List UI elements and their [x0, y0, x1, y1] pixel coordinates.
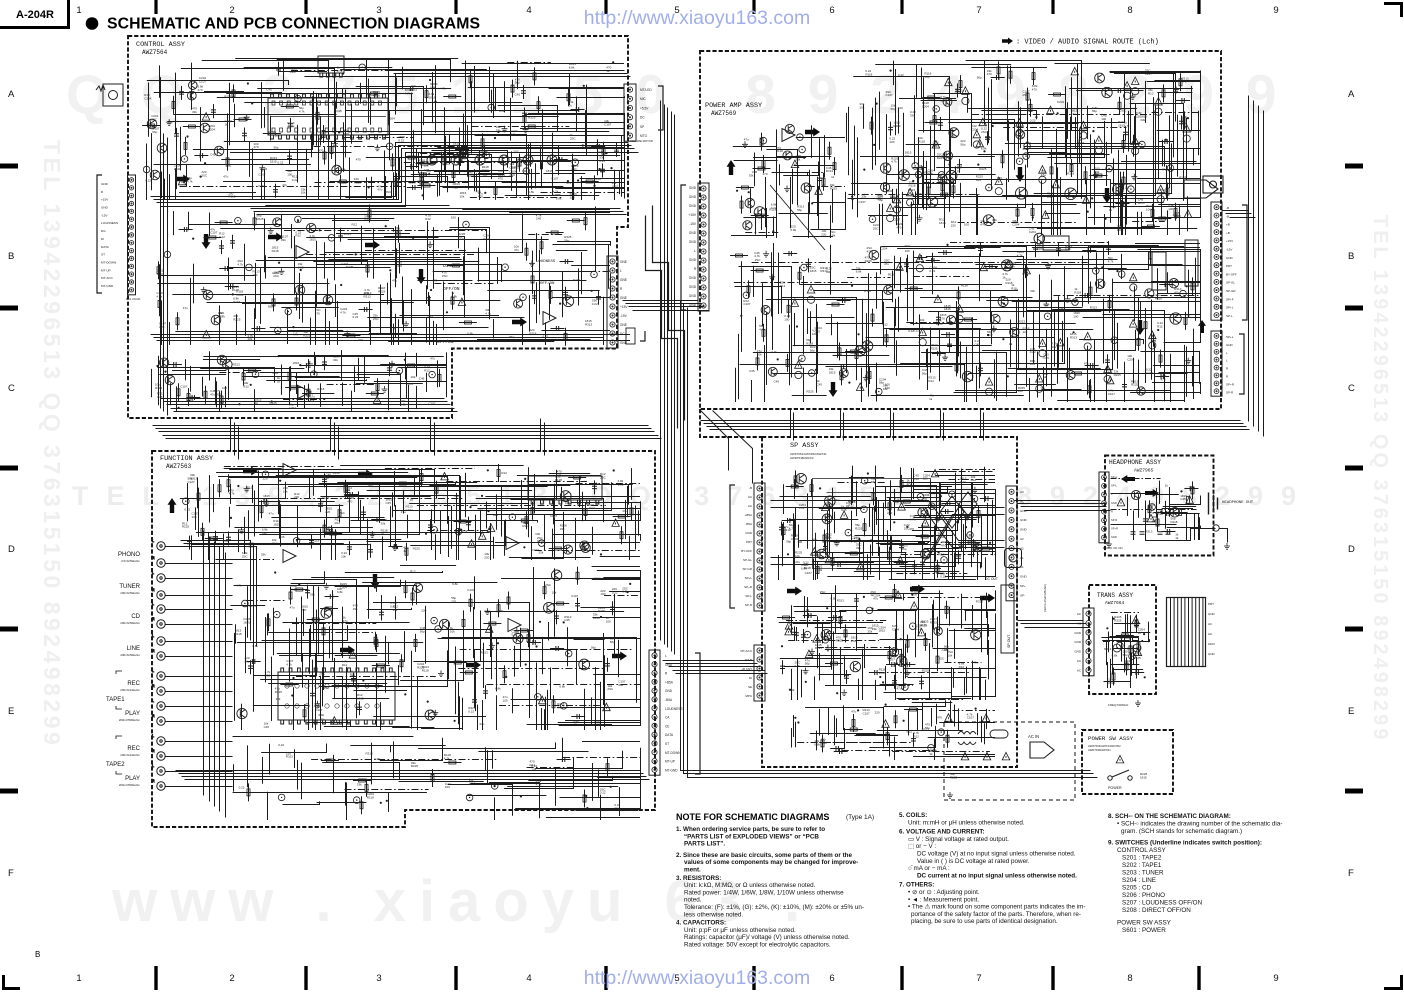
wire	[900, 257, 902, 292]
value label	[1138, 198, 1145, 205]
svg-text:SP-L: SP-L	[1111, 484, 1117, 488]
value label	[981, 127, 988, 134]
svg-text:R: R	[1226, 367, 1229, 371]
wire	[764, 345, 766, 402]
wire	[916, 65, 918, 98]
wire	[365, 250, 467, 252]
wire	[328, 259, 461, 261]
wire	[307, 355, 412, 358]
svg-text:C107: C107	[315, 708, 323, 712]
junction	[300, 269, 302, 271]
wire	[1130, 392, 1200, 394]
wire	[1053, 184, 1055, 235]
wire	[903, 113, 905, 177]
value label	[960, 139, 965, 146]
svg-text:R225: R225	[956, 89, 964, 93]
wire	[790, 177, 792, 215]
svg-text:470: 470	[318, 148, 323, 152]
wire	[809, 170, 811, 215]
wire	[920, 297, 1033, 299]
resistor R121	[451, 297, 454, 304]
wire	[1074, 227, 1134, 229]
svg-text:4.7k: 4.7k	[480, 149, 486, 153]
wire lead	[181, 86, 183, 100]
diagonal wire	[770, 185, 825, 250]
capacitor C2144	[888, 127, 893, 129]
svg-text:SP OUT: SP OUT	[1007, 634, 1011, 648]
svg-text:R12: R12	[928, 379, 934, 383]
svg-text:R313: R313	[826, 169, 834, 173]
svg-text:S601 : POWER: S601 : POWER	[1122, 927, 1166, 934]
resistor R1416	[177, 389, 180, 396]
value label	[467, 171, 475, 178]
capacitor C1110	[276, 68, 281, 70]
svg-text:R: R	[152, 556, 155, 560]
resistor R222	[1159, 355, 1162, 362]
wire	[257, 88, 451, 90]
resistor R2152	[941, 193, 948, 196]
junction	[355, 253, 357, 255]
wire lead	[244, 128, 246, 142]
resistor R2228	[851, 350, 858, 353]
wire	[161, 301, 163, 346]
wire	[394, 122, 620, 124]
svg-text:R118: R118	[594, 177, 601, 181]
safety mark 213	[1047, 106, 1055, 114]
svg-text:R118: R118	[333, 471, 340, 475]
svg-text:2SC: 2SC	[545, 583, 552, 587]
wire lead	[243, 370, 261, 372]
wire	[765, 177, 767, 227]
wire	[977, 194, 979, 235]
svg-text:ST: ST	[101, 253, 105, 257]
wire	[244, 103, 335, 167]
value label	[451, 291, 457, 298]
svg-text:R313: R313	[893, 124, 901, 128]
svg-text:GNE: GNE	[620, 260, 627, 264]
value label	[440, 86, 446, 90]
svg-text:R313: R313	[976, 599, 984, 603]
wire	[327, 384, 377, 386]
wire	[846, 113, 848, 143]
svg-text:PARTS LIST”.: PARTS LIST”.	[684, 841, 725, 848]
svg-text:33k: 33k	[276, 697, 281, 701]
connector CN602 bracket	[1242, 205, 1247, 320]
svg-text:6.8k: 6.8k	[337, 590, 343, 594]
resistor R2155	[1120, 185, 1123, 192]
svg-text:0.22: 0.22	[454, 494, 460, 498]
svg-text:R12: R12	[425, 217, 431, 221]
wire	[923, 77, 925, 132]
wire	[263, 359, 308, 372]
value label	[467, 332, 473, 336]
node 2123	[933, 106, 940, 113]
ground	[985, 135, 991, 141]
svg-text:C45: C45	[1180, 497, 1186, 501]
value label	[458, 232, 466, 239]
bus wires	[171, 408, 455, 410]
svg-text:AC: AC	[1077, 668, 1082, 672]
node 1141	[146, 169, 147, 170]
value label	[860, 102, 865, 109]
svg-text:200mV/50kohm: 200mV/50kohm	[120, 591, 140, 595]
junction	[428, 173, 430, 175]
svg-text:SP-GR: SP-GR	[742, 567, 752, 571]
svg-text:100: 100	[1037, 247, 1042, 251]
resistor R1125	[172, 101, 175, 108]
svg-text:33k: 33k	[872, 627, 877, 631]
wire	[357, 375, 401, 406]
wire	[360, 83, 362, 104]
wire	[528, 114, 625, 199]
wire	[896, 189, 898, 225]
svg-text:56p: 56p	[922, 496, 927, 500]
transistor Q215 label	[522, 169, 527, 173]
svg-text:1k: 1k	[870, 593, 874, 597]
svg-text:AWZ7664: AWZ7664	[1105, 600, 1125, 606]
transistor Q121	[273, 218, 282, 227]
wire	[586, 85, 588, 156]
svg-text:6.8k: 6.8k	[452, 582, 458, 586]
wire	[1047, 121, 1104, 158]
svg-text:C45: C45	[598, 150, 604, 154]
svg-text:MT-GND: MT-GND	[101, 284, 114, 288]
wire	[431, 131, 567, 133]
svg-text:C45: C45	[938, 502, 944, 506]
wire	[327, 279, 329, 304]
svg-text:9. SWITCHES (Underline indica: 9. SWITCHES (Underline indicates switch …	[1108, 840, 1262, 847]
wire	[389, 111, 391, 161]
svg-text:470: 470	[432, 278, 437, 282]
wire	[167, 121, 234, 123]
svg-text:0.22: 0.22	[930, 269, 936, 273]
value label	[1057, 100, 1065, 104]
wire	[159, 65, 161, 97]
svg-text:100: 100	[898, 106, 903, 110]
svg-text:6.8k: 6.8k	[791, 228, 797, 232]
svg-text:56p: 56p	[564, 238, 569, 242]
svg-text:470: 470	[937, 716, 942, 720]
wire	[337, 301, 339, 345]
junction	[292, 326, 294, 328]
svg-text:100: 100	[889, 140, 894, 144]
svg-text:10k: 10k	[460, 195, 465, 199]
svg-text:6.8k: 6.8k	[1148, 507, 1154, 511]
wire	[734, 160, 778, 162]
svg-text:R225: R225	[411, 764, 419, 768]
wire	[917, 168, 919, 224]
svg-text:http://www.xiaoyu163.com: http://www.xiaoyu163.com	[584, 967, 811, 989]
wire	[552, 133, 554, 196]
svg-text:220: 220	[484, 556, 489, 560]
wire	[311, 134, 313, 158]
bus wires	[330, 419, 332, 452]
signal arrow	[202, 234, 211, 249]
value label	[272, 271, 280, 275]
wire	[773, 243, 775, 280]
svg-text:10k: 10k	[1117, 228, 1122, 232]
svg-text:4.7k: 4.7k	[954, 169, 960, 173]
resistor R114	[586, 180, 593, 183]
svg-text:C204: C204	[289, 406, 297, 410]
svg-text:6.8k: 6.8k	[400, 402, 406, 406]
wire	[1079, 129, 1081, 163]
svg-text:470: 470	[356, 157, 361, 161]
wire lead	[366, 393, 384, 395]
junction	[1057, 112, 1059, 114]
svg-text:3. RESISTORS:: 3. RESISTORS:	[676, 875, 721, 882]
wire	[160, 77, 162, 135]
wire lead	[1010, 66, 1012, 84]
resistor R2238	[871, 314, 874, 321]
wire	[463, 114, 465, 146]
value label	[277, 376, 281, 383]
wire	[578, 268, 580, 305]
wire	[313, 102, 522, 104]
wire lead	[934, 110, 936, 128]
junction	[497, 131, 499, 133]
wire	[927, 349, 929, 391]
svg-text:1k: 1k	[1109, 208, 1113, 212]
resistor R228	[1088, 386, 1091, 393]
wire	[1191, 86, 1193, 131]
svg-text:SP-GL: SP-GL	[743, 558, 752, 562]
wire	[370, 320, 372, 345]
wire lead	[1030, 99, 1032, 117]
svg-text:R118: R118	[422, 668, 429, 672]
wire	[435, 65, 437, 133]
wire	[1179, 205, 1181, 235]
value label	[272, 246, 279, 253]
wire	[918, 137, 920, 205]
wire	[1088, 70, 1201, 217]
junction	[389, 269, 391, 271]
node 1241	[463, 221, 470, 228]
wire lead	[998, 61, 1000, 79]
wire lead	[1180, 73, 1182, 91]
junction	[156, 365, 158, 367]
svg-text:NOTE FOR SCHEMATIC DIAGRAMS: NOTE FOR SCHEMATIC DIAGRAMS	[676, 812, 829, 822]
value label	[514, 245, 519, 252]
svg-text:0.22: 0.22	[353, 315, 359, 319]
resistor R2139	[1054, 93, 1061, 96]
value label	[826, 166, 834, 173]
wire	[899, 98, 956, 100]
wire	[1062, 321, 1064, 362]
junction	[890, 70, 892, 72]
value label	[1168, 204, 1174, 211]
wire	[1135, 243, 1200, 245]
ground	[1130, 93, 1136, 99]
transistor Q64	[743, 221, 752, 230]
bus wires	[940, 410, 942, 438]
wire	[160, 275, 255, 277]
wire	[169, 322, 171, 345]
bus wires	[1025, 510, 1111, 512]
wire	[340, 175, 342, 200]
wire	[474, 66, 476, 113]
svg-text:220: 220	[493, 513, 498, 517]
resistor R1127	[420, 177, 423, 184]
value label	[1071, 109, 1078, 116]
transistor Q62	[881, 183, 890, 192]
svg-text:MIC: MIC	[640, 97, 647, 101]
wire lead	[550, 286, 552, 304]
node 2311	[801, 149, 802, 150]
value label	[551, 176, 559, 180]
value label	[270, 401, 278, 405]
svg-text:2SC: 2SC	[570, 136, 577, 140]
svg-text:6.8k: 6.8k	[451, 294, 457, 298]
wire	[861, 368, 863, 402]
svg-text:6.8k: 6.8k	[495, 687, 501, 691]
svg-text:47u: 47u	[324, 686, 329, 690]
svg-text:DATA: DATA	[101, 245, 110, 249]
wire	[1154, 81, 1200, 204]
wire	[249, 142, 251, 177]
transistor Q625	[1170, 313, 1181, 324]
wire	[516, 157, 518, 197]
wire	[562, 271, 610, 273]
wire	[923, 151, 925, 210]
wire lead	[869, 366, 871, 384]
value label	[1067, 172, 1074, 176]
junction	[583, 85, 585, 87]
svg-text:POWER SW ASSY: POWER SW ASSY	[1088, 735, 1134, 742]
wire	[287, 404, 340, 406]
svg-text:0.22: 0.22	[771, 206, 777, 210]
svg-text:GND: GND	[101, 182, 109, 186]
wire	[228, 370, 230, 400]
wire	[157, 283, 329, 285]
wire	[437, 174, 439, 197]
wire	[913, 196, 1086, 198]
wire	[294, 236, 296, 276]
value label	[485, 308, 491, 315]
svg-text:PRT: PRT	[746, 540, 752, 544]
wire lead	[538, 96, 540, 114]
wire	[366, 59, 368, 96]
wire	[848, 107, 850, 147]
junction	[772, 230, 774, 232]
svg-text:470: 470	[763, 172, 768, 176]
svg-text:100: 100	[570, 195, 575, 199]
resistor R1114	[184, 142, 187, 149]
wire	[771, 252, 773, 316]
junction	[340, 284, 342, 286]
svg-text:R225: R225	[346, 265, 354, 269]
svg-text:+15V: +15V	[688, 213, 696, 217]
svg-text:R118: R118	[961, 284, 968, 288]
svg-text:+B5A: +B5A	[745, 513, 752, 517]
capacitor C141	[306, 363, 308, 368]
wire	[1187, 196, 1189, 231]
wire	[793, 236, 833, 238]
wire	[522, 324, 524, 345]
svg-text:ST: ST	[665, 742, 669, 746]
svg-text:R118: R118	[1171, 520, 1178, 524]
value label	[224, 95, 231, 99]
svg-text:1815: 1815	[270, 160, 277, 164]
wire lead	[219, 268, 233, 270]
wire	[345, 365, 446, 367]
wire	[1007, 66, 1009, 141]
svg-text:10k: 10k	[450, 629, 455, 633]
resistor R1143	[188, 125, 195, 128]
connector CN602	[1211, 202, 1222, 320]
capacitor C110	[179, 92, 184, 94]
wire	[766, 313, 768, 385]
value label	[979, 167, 987, 171]
wire lead	[603, 142, 605, 160]
value label	[398, 135, 405, 142]
wire	[437, 360, 439, 387]
wire	[957, 353, 959, 373]
wire	[553, 244, 611, 246]
wire	[159, 280, 161, 317]
resistor R127	[253, 218, 256, 225]
safety mark 111	[178, 177, 186, 185]
value label	[1101, 114, 1107, 121]
svg-text:OFF/ON: OFF/ON	[540, 281, 555, 286]
wire	[853, 77, 949, 212]
value label	[298, 262, 304, 269]
wire	[505, 195, 600, 197]
wire	[181, 69, 335, 144]
wire	[1184, 345, 1186, 402]
value label	[977, 76, 982, 80]
wire	[577, 63, 624, 65]
svg-text:R118: R118	[232, 288, 239, 292]
svg-text:1k: 1k	[403, 549, 407, 553]
junction	[164, 371, 166, 373]
transistor Q141	[223, 360, 233, 370]
wire	[159, 374, 226, 376]
svg-text:R118: R118	[1067, 172, 1074, 176]
svg-text:C204: C204	[1057, 100, 1065, 104]
signal arrow	[1136, 320, 1145, 335]
svg-text:56p: 56p	[902, 547, 907, 551]
svg-text:470: 470	[909, 527, 914, 531]
svg-text:6.8k: 6.8k	[1065, 247, 1071, 251]
junction	[404, 359, 406, 361]
wire	[930, 179, 1100, 181]
svg-text:GNE: GNE	[620, 341, 627, 345]
wire	[852, 160, 854, 210]
signal arrow	[727, 160, 736, 175]
wire	[1057, 345, 1059, 384]
wire	[1106, 142, 1108, 186]
svg-text:AWR7638/AWX3/: AWR7638/AWX3/	[790, 456, 814, 460]
svg-text:AC: AC	[1077, 659, 1082, 663]
wire	[426, 285, 428, 304]
svg-text:2SC: 2SC	[214, 366, 221, 370]
wire	[268, 257, 460, 259]
svg-text:6.8k: 6.8k	[856, 270, 862, 274]
value label	[981, 147, 987, 151]
value label	[281, 235, 289, 242]
transistor Q214	[499, 155, 509, 165]
wire	[603, 297, 605, 345]
svg-text:POWER SW ASSY: POWER SW ASSY	[1117, 920, 1172, 927]
svg-text:R225: R225	[1114, 373, 1122, 377]
wire lead	[392, 153, 394, 171]
transistor Q613	[947, 315, 956, 324]
svg-text:4.7k: 4.7k	[159, 325, 165, 329]
node 1141	[143, 166, 150, 173]
transistor Q615	[768, 367, 777, 376]
wire	[249, 294, 384, 296]
